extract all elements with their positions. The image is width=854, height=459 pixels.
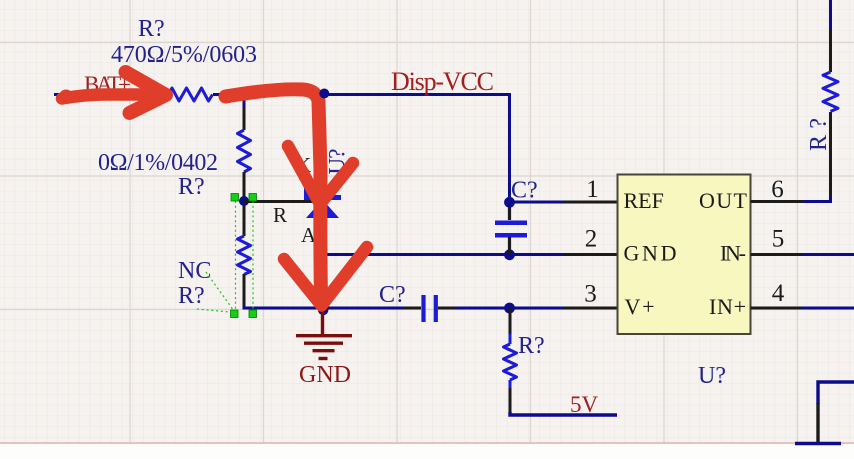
- wire bottom right partial: [795, 382, 854, 444]
- svg-text:1: 1: [586, 176, 599, 203]
- resistor R3 NC vertical: [243, 205, 246, 236]
- svg-text:IN+: IN+: [709, 294, 746, 319]
- svg-text:0Ω/1%/0402: 0Ω/1%/0402: [98, 150, 218, 176]
- resistor R2 0R vertical: [238, 130, 251, 172]
- svg-text:470Ω/5%/0603: 470Ω/5%/0603: [111, 42, 257, 68]
- svg-text:5V: 5V: [570, 392, 599, 417]
- svg-text:R?: R?: [178, 283, 205, 309]
- node junction left: [239, 196, 249, 206]
- resistor R4 to 5V: [504, 308, 517, 413]
- IC U2 body: [618, 175, 751, 335]
- annotation arrow 1 tail: [59, 90, 149, 104]
- svg-text:GND: GND: [299, 362, 351, 388]
- svg-text:2: 2: [585, 226, 598, 253]
- wire branch down to R2: [243, 95, 246, 131]
- ground symbol: [296, 308, 352, 359]
- svg-text:OUT: OUT: [699, 188, 748, 213]
- node junction row2: [504, 249, 515, 260]
- resistor R5 right: [823, 72, 838, 111]
- wire U1 anode to GND: [321, 216, 324, 308]
- annotation arrow 2 mid chevron: [288, 146, 353, 204]
- annotation arrow 2 shaft: [222, 89, 322, 300]
- svg-text:NC: NC: [178, 258, 211, 284]
- wire pin1 REF: [510, 201, 564, 204]
- selection handles NC resistor: [197, 194, 257, 318]
- node junction GND: [318, 305, 328, 315]
- svg-text:U?: U?: [698, 363, 726, 389]
- svg-text:R?: R?: [178, 174, 205, 200]
- annotation arrow 1 head: [126, 72, 167, 113]
- node junction top: [319, 89, 329, 99]
- wire pin4 net: [751, 307, 854, 310]
- resistor R1 470R horizontal: [168, 88, 213, 101]
- svg-text:R?: R?: [518, 333, 545, 359]
- capacitor C2 plates: [421, 295, 425, 322]
- svg-text:5: 5: [772, 226, 785, 253]
- shunt reference U1 symbol: [304, 185, 341, 218]
- wire bottom row: [244, 306, 404, 308]
- wire BAT+ stub: [54, 93, 168, 96]
- wire 5V net: [510, 412, 617, 415]
- svg-text:REF: REF: [624, 188, 664, 213]
- node junction row3: [504, 303, 515, 314]
- wire pin6 net: [751, 0, 831, 202]
- svg-text:4: 4: [772, 280, 785, 307]
- node junction C1 top: [504, 197, 515, 208]
- svg-text:R: R: [273, 203, 287, 227]
- wire Disp-VCC net: [213, 95, 510, 203]
- svg-text:C?: C?: [511, 178, 538, 204]
- svg-text:Disp-VCC: Disp-VCC: [391, 67, 494, 96]
- svg-text:GND: GND: [624, 241, 677, 266]
- svg-text:3: 3: [584, 281, 597, 308]
- svg-text:C?: C?: [379, 282, 406, 308]
- pin R2 lower: [243, 172, 246, 197]
- wire pin R of U1: [244, 200, 316, 203]
- wire pin5 net: [751, 253, 854, 256]
- svg-text:6: 6: [771, 176, 784, 203]
- wire row2 to pin GND: [323, 253, 564, 256]
- svg-text:V+: V+: [625, 294, 655, 319]
- capacitor C1 vertical: [495, 202, 527, 255]
- svg-text:IN-: IN-: [720, 241, 746, 266]
- annotation arrow 2 head: [284, 247, 367, 306]
- svg-text:R?: R?: [138, 16, 165, 42]
